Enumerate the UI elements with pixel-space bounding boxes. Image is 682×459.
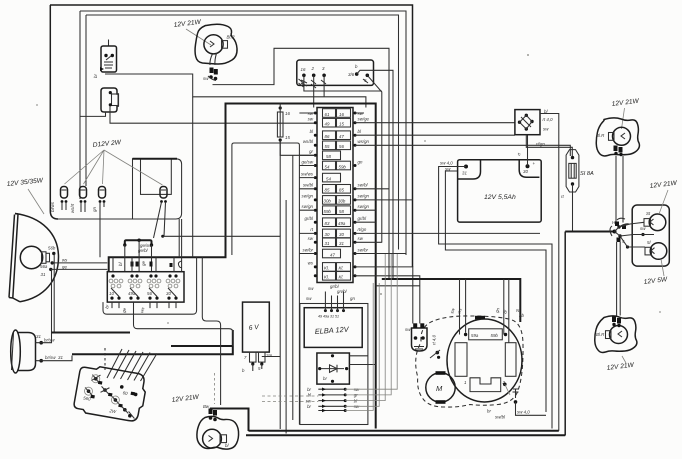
wire bottom bus top (249, 430, 559, 432)
wire rounded loop R2 (58, 159, 182, 219)
svg-text:2b: 2b (518, 313, 524, 318)
wire headlight to cluster b (51, 268, 108, 270)
wire top bus 1 (50, 5, 413, 267)
wire front-right lamp pair down (616, 156, 623, 223)
cluster section 3 (147, 274, 161, 299)
svg-text:br: br (323, 376, 327, 381)
svg-text:31: 31 (36, 334, 41, 339)
svg-text:47: 47 (330, 252, 335, 257)
stator top pad (475, 316, 485, 320)
leader line (186, 29, 211, 45)
wire horn bottom (41, 356, 72, 361)
tail bulb lower 5W (645, 240, 667, 259)
svg-text:sw: sw (306, 398, 312, 403)
svg-text:bl: bl (118, 262, 123, 266)
svg-text:Kl.: Kl. (324, 266, 329, 271)
svg-text:SI 8A: SI 8A (580, 171, 594, 177)
wire mid verticals (280, 140, 293, 434)
dip switch S2 (101, 88, 119, 112)
tail bulb upper 21W (640, 211, 666, 231)
wire S1 to ignition area (105, 74, 366, 108)
wire bottom bus bottom (246, 434, 565, 436)
svg-text:sw/bl: sw/bl (303, 183, 314, 188)
turn signal lamp rear-right housing (595, 316, 637, 353)
wire S1 route vertical continuation (192, 97, 194, 257)
svg-text:M: M (436, 384, 443, 393)
svg-text:br: br (307, 387, 311, 392)
terminal row 47 (299, 247, 406, 257)
wire fan to speedometer (107, 349, 157, 381)
bulb rear-left (203, 429, 227, 448)
svg-text:ge: ge (62, 264, 67, 269)
wire thick ground line left (52, 332, 131, 334)
svg-text:31: 31 (41, 272, 46, 277)
connector front-right lamp (614, 146, 623, 157)
generator plug (405, 323, 427, 351)
svg-text:gn/bl: gn/bl (337, 289, 348, 294)
svg-text:rt: rt (561, 194, 564, 199)
svg-text:gn: gn (350, 296, 355, 301)
svg-text:sw/gn: sw/gn (302, 194, 314, 199)
tail light unit (632, 205, 669, 266)
svg-text:gn: gn (494, 307, 501, 314)
bulb front-left (204, 35, 228, 54)
svg-text:sw/br: sw/br (358, 247, 369, 252)
svg-text:12V 5W: 12V 5W (643, 276, 668, 286)
wire tail knot pair down to rear-right lamp (617, 242, 621, 316)
svg-text:sw: sw (358, 236, 364, 241)
svg-text:gr/bl: gr/bl (304, 216, 314, 221)
svg-text:ws: ws (308, 261, 314, 266)
svg-text:ELBA 12V: ELBA 12V (315, 325, 350, 336)
leader rear-right (622, 356, 626, 363)
svg-text:58: 58 (326, 154, 331, 159)
wire flasher to rear harness (540, 114, 559, 431)
ignition terminal 2 (311, 66, 317, 108)
pilot lamp L1 (50, 187, 68, 213)
ELBA enclosure (300, 304, 368, 425)
svg-text:49a: 49a (128, 291, 136, 296)
svg-text:56b: 56b (48, 246, 56, 251)
wire left drop c (85, 15, 87, 186)
cluster section 2 (128, 274, 142, 299)
cluster section 4 (166, 274, 180, 299)
terminal row 85/85 (299, 183, 389, 194)
svg-text:sw 4,0: sw 4,0 (517, 410, 530, 415)
connector rear-right lamp (612, 317, 621, 328)
wire cluster side loop B to rear-left lamp (202, 257, 220, 405)
headlight bulb (20, 246, 49, 268)
wire battery charge line (376, 285, 420, 287)
wire headlight to cluster a (52, 262, 107, 264)
terminal row 30/30 (299, 227, 540, 238)
svg-text:54: 54 (326, 176, 331, 181)
terminal row 49/15 (308, 117, 515, 128)
handlebar switch cluster box (107, 272, 184, 302)
wire cluster bottom stubs (112, 302, 176, 308)
svg-text:br/sw: br/sw (44, 338, 55, 343)
svg-text:3/6: 3/6 (348, 72, 355, 77)
svg-text:61: 61 (325, 112, 330, 117)
svg-text:br: br (487, 409, 491, 414)
svg-text:rt 4,0: rt 4,0 (432, 334, 437, 345)
central terminal board (317, 108, 353, 283)
generator dashed outline (416, 316, 523, 407)
6V box (243, 302, 270, 352)
wire top bus 3 (86, 15, 399, 250)
svg-text:1: 1 (464, 380, 467, 385)
bulb front-right (609, 127, 631, 145)
wire dashed at rear-left lamp (214, 373, 216, 404)
terminal row Kl a (308, 261, 413, 324)
battery terminal 30 (523, 161, 536, 174)
junction dots on dashed (436, 351, 440, 355)
svg-text:rt/gn: rt/gn (536, 142, 545, 147)
wire thick line to tacho area (72, 330, 233, 354)
svg-text:ws: ws (139, 306, 145, 313)
field coil right (505, 343, 516, 377)
svg-text:gn: gn (358, 159, 363, 164)
leader tail lower (661, 259, 664, 276)
svg-text:5: 5 (258, 366, 261, 371)
wire bulb to connector (210, 53, 217, 65)
svg-text:sw/gn: sw/gn (358, 204, 370, 209)
svg-text:sw/bl: sw/bl (495, 415, 506, 420)
svg-text:Kl.: Kl. (339, 266, 344, 271)
svg-text:49a: 49a (338, 221, 346, 226)
svg-text:Kl.: Kl. (339, 275, 344, 280)
generator ground pin (503, 383, 546, 416)
wire battery second lead (445, 171, 546, 412)
svg-text:12V 35/35W: 12V 35/35W (6, 177, 44, 188)
horn terminals (36, 334, 57, 363)
svg-text:2: 2 (311, 66, 315, 71)
wire thick dynamo feed (382, 279, 521, 322)
battery 12V 5.5Ah (458, 160, 542, 222)
svg-text:5l: 5l (647, 240, 651, 245)
headlight reflector (9, 214, 59, 302)
svg-text:sw/bl: sw/bl (358, 183, 369, 188)
wire rectifier side taps (349, 356, 375, 365)
wire horn top to thick line (41, 333, 51, 343)
svg-text:56: 56 (147, 291, 152, 296)
svg-text:Bl.R: Bl.R (596, 332, 605, 337)
svg-text:59b: 59b (491, 333, 499, 338)
ignition terminal 3 (321, 66, 326, 97)
motor M (426, 371, 455, 404)
wire front-left lamp loop (213, 48, 390, 278)
svg-text:br: br (307, 404, 311, 409)
wire fuse to tail feed (572, 184, 574, 232)
terminal row 86/47 (310, 129, 515, 140)
svg-text:gn: gn (92, 207, 97, 212)
pilot lamp L3 (92, 187, 106, 258)
svg-text:47: 47 (339, 134, 344, 139)
wire ELBA leads up (325, 292, 343, 311)
svg-text:sw/ge: sw/ge (358, 117, 370, 122)
pilot lamp L2 (70, 187, 87, 214)
svg-text:3: 3 (322, 66, 325, 71)
svg-text:ge: ge (121, 307, 127, 314)
terminal row 55/56 (303, 139, 570, 156)
terminal row Kl b (314, 272, 420, 324)
terminal row 54/59b (299, 159, 363, 170)
svg-text:30: 30 (325, 232, 330, 237)
wire vertical from R2 to R1 (178, 219, 180, 257)
svg-text:60: 60 (122, 390, 128, 396)
svg-text:30b: 30b (338, 199, 346, 204)
svg-text:30b: 30b (324, 199, 332, 204)
svg-text:12V 5,5Ah: 12V 5,5Ah (484, 194, 516, 201)
cluster top connector marks (118, 261, 173, 267)
wire harness loop R1 (109, 104, 376, 429)
svg-text:ws/bl: ws/bl (303, 139, 314, 144)
svg-text:2m: 2m (265, 353, 272, 358)
svg-text:56a: 56a (40, 264, 48, 269)
wire top bus 2 (80, 11, 406, 255)
svg-text:br/sw: br/sw (45, 355, 56, 360)
terminal row 30b (302, 194, 413, 205)
svg-text:b: b (355, 64, 358, 69)
svg-text:rt 4,0: rt 4,0 (543, 117, 554, 122)
svg-text:59b: 59b (339, 164, 347, 169)
svg-text:bl/ws: bl/ws (50, 201, 55, 212)
wire battery 30 to flasher (527, 135, 529, 167)
wire rear-left lamp thick feed (210, 409, 249, 432)
speedometer cluster (73, 364, 148, 423)
svg-text:Bw: Bw (203, 404, 210, 409)
svg-text:12V 21W: 12V 21W (173, 19, 202, 29)
svg-text:16: 16 (285, 111, 290, 116)
svg-text:ge: ge (141, 261, 146, 266)
wire S2 lead b to terminal row (110, 106, 315, 123)
wire generator top feeds (460, 279, 509, 343)
wire flasher bottom to fuse line (526, 135, 572, 156)
field winding bottom (464, 378, 506, 392)
svg-text:15: 15 (285, 135, 290, 140)
svg-text:br: br (104, 304, 110, 310)
leader tail upper (659, 190, 668, 214)
connector front-left lamp (203, 68, 218, 82)
svg-text:sw/gn: sw/gn (302, 204, 314, 209)
svg-text:58: 58 (339, 209, 344, 214)
svg-text:sw: sw (203, 76, 209, 81)
horn (11, 330, 36, 373)
svg-text:12V 21W: 12V 21W (606, 362, 635, 372)
terminal row 61/16 (299, 109, 364, 118)
svg-text:ws/rt: ws/rt (70, 203, 75, 213)
svg-text:30: 30 (523, 169, 528, 174)
svg-text:sw: sw (308, 286, 314, 291)
svg-text:br: br (93, 74, 98, 78)
wire headlight ground drops (52, 254, 55, 333)
leader headlight (28, 189, 44, 214)
svg-text:31: 31 (339, 241, 344, 246)
svg-text:59a: 59a (471, 333, 479, 338)
svg-text:sw/ws: sw/ws (301, 171, 314, 176)
svg-text:6 V: 6 V (248, 324, 259, 332)
turn signal lamp front-left housing (195, 24, 237, 64)
svg-text:ws/gn: ws/gn (358, 139, 370, 144)
svg-text:49: 49 (325, 122, 330, 127)
noise specks (36, 54, 661, 324)
svg-text:sw: sw (543, 127, 549, 132)
svg-text:7: 7 (244, 355, 247, 360)
wire rear harness second (564, 232, 566, 436)
svg-text:b: b (242, 368, 245, 373)
svg-text:85: 85 (339, 188, 344, 193)
turn signal lamp rear-left housing (197, 416, 239, 449)
headlight terminals (40, 246, 56, 278)
fuse SI 8A (561, 150, 594, 199)
svg-text:54: 54 (325, 164, 330, 169)
ignition terminal 5 (363, 74, 382, 243)
svg-text:85: 85 (325, 188, 330, 193)
svg-text:10: 10 (109, 291, 114, 296)
ELBA 12V regulator box (304, 308, 362, 348)
terminal row 58 (299, 149, 340, 160)
wire dashed taps to ELBA arrows (262, 396, 318, 402)
svg-text:30: 30 (166, 291, 171, 296)
ignition terminal 3/6 (348, 64, 393, 279)
wire staircase feeds to ELBA connector (345, 254, 397, 411)
cluster section 1 (109, 274, 123, 299)
svg-text:2W: 2W (108, 408, 117, 414)
battery terminal 31 (462, 165, 468, 176)
svg-text:bl: bl (358, 129, 362, 134)
wire cluster feeds from R1 (113, 257, 174, 272)
svg-text:59b: 59b (324, 209, 332, 214)
svg-text:31: 31 (325, 241, 330, 246)
wire cluster bottom to mid vertical (134, 302, 234, 346)
svg-text:sw: sw (308, 236, 314, 241)
svg-text:gr/bl: gr/bl (358, 216, 368, 221)
svg-text:Kl.: Kl. (324, 275, 329, 280)
inline fuse at terminal board (277, 104, 315, 156)
wire left drop b (79, 11, 81, 199)
svg-text:Bl.R: Bl.R (227, 35, 236, 40)
wire tail feed thick (565, 231, 613, 233)
svg-text:sw/gn: sw/gn (358, 194, 370, 199)
bulb rear-right (606, 326, 628, 344)
ignition terminal 16 (299, 67, 382, 91)
svg-text:St: St (646, 211, 651, 216)
svg-text:D12V 2W: D12V 2W (92, 139, 122, 149)
wire pilot lamp4 tap to vertical (161, 235, 164, 238)
flasher relay (515, 110, 540, 135)
svg-text:86: 86 (325, 134, 330, 139)
svg-text:sw 4,0: sw 4,0 (440, 161, 453, 166)
brush box 59a/59b (464, 329, 507, 340)
wire thick top of B2 (133, 158, 178, 160)
svg-text:sw: sw (640, 226, 646, 231)
svg-text:bl: bl (308, 393, 312, 398)
indicator housing box B2 (141, 159, 172, 195)
svg-text:bl: bl (225, 443, 229, 448)
leader fan to pilot lamps (65, 150, 163, 185)
wire harness loop R3 (232, 143, 300, 425)
brake light switch S1 (100, 40, 117, 73)
svg-text:49 49a 31 51: 49 49a 31 51 (318, 315, 339, 319)
svg-text:83: 83 (325, 221, 330, 226)
leader front-right (622, 108, 625, 129)
svg-text:sw/br: sw/br (303, 247, 314, 252)
svg-text:55: 55 (325, 144, 330, 149)
rectifier box (317, 353, 350, 384)
svg-text:rt: rt (310, 227, 313, 232)
terminal row 54b (299, 171, 340, 182)
svg-text:56: 56 (339, 144, 344, 149)
svg-text:rt: rt (516, 152, 522, 157)
pilot lamp L4 (154, 187, 168, 239)
svg-text:bl: bl (310, 129, 314, 134)
6V pins (242, 352, 280, 373)
svg-text:30: 30 (339, 232, 344, 237)
svg-text:sw: sw (306, 296, 312, 301)
generator stator (447, 319, 522, 402)
terminal row 59b/58 (299, 204, 375, 215)
wire cluster side loop A (103, 257, 197, 314)
svg-text:sw: sw (405, 327, 411, 332)
svg-text:15: 15 (339, 122, 344, 127)
ignition switch housing (297, 60, 374, 85)
svg-text:560: 560 (83, 395, 92, 401)
svg-text:+: + (533, 161, 536, 166)
svg-text:rt/gn: rt/gn (358, 227, 367, 232)
wire S2 lead a (80, 112, 106, 116)
ELBA connector arrows (306, 387, 360, 412)
wire R2 edge down to cluster (181, 219, 183, 272)
terminal row 31/31 (308, 236, 382, 247)
svg-text:Bl.R: Bl.R (596, 133, 605, 138)
wire left border drop (50, 5, 58, 219)
jumper bar above switch cluster (123, 239, 153, 254)
svg-text:31: 31 (58, 355, 63, 360)
wire jumper feeds into cluster (125, 240, 152, 272)
svg-text:16: 16 (301, 67, 306, 72)
wire battery 31 ground loop (439, 167, 552, 429)
svg-text:gr: gr (309, 149, 313, 154)
svg-text:bl: bl (502, 308, 508, 314)
svg-text:ws: ws (62, 258, 68, 263)
svg-text:12V 21W: 12V 21W (649, 180, 678, 190)
turn signal lamp front-right housing (596, 118, 639, 156)
svg-text:31: 31 (462, 171, 467, 176)
terminal row 83/49a (304, 216, 375, 227)
connector curl at cluster top (178, 261, 181, 268)
svg-text:ge/sw: ge/sw (302, 159, 314, 164)
connector rear-left lamp (203, 404, 217, 421)
svg-text:12V 21W: 12V 21W (611, 98, 640, 108)
svg-text:16: 16 (339, 112, 344, 117)
svg-text:12V 21W: 12V 21W (171, 394, 200, 404)
svg-text:sw: sw (308, 117, 314, 122)
tail junction knot (610, 218, 654, 248)
wire dashed into speedometer (104, 348, 106, 370)
field coil left (455, 343, 467, 377)
